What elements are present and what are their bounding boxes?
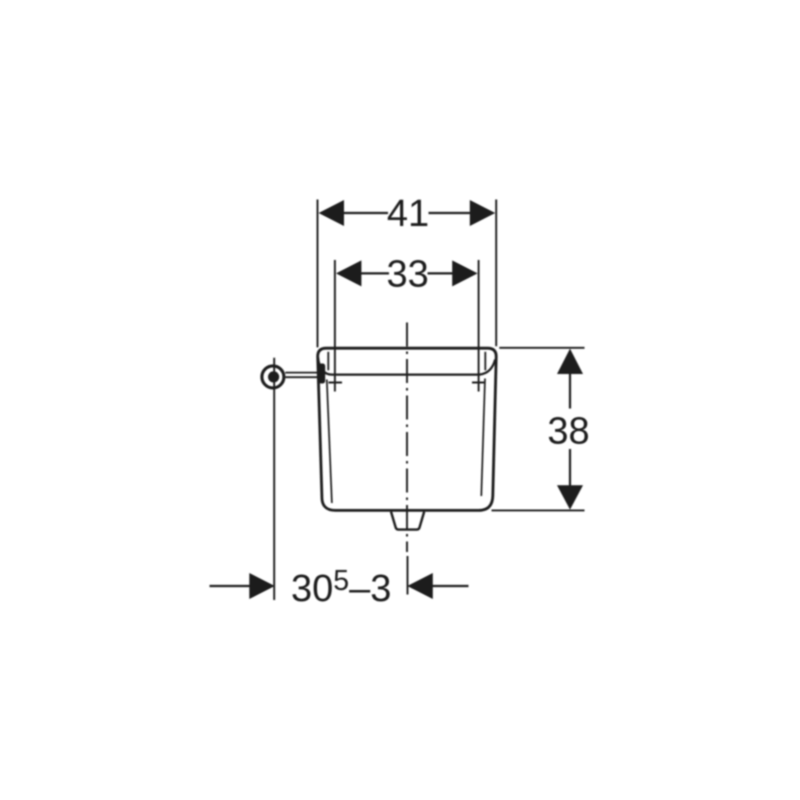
svg-text:33: 33 [386,253,428,295]
svg-text:38: 38 [547,411,589,453]
svg-text:41: 41 [387,193,429,235]
